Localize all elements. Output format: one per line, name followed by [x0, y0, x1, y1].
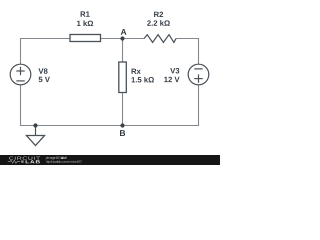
resistor R2	[144, 12, 176, 43]
wire right vertical upper	[198, 38, 200, 65]
wire bottom horizontal	[20, 125, 199, 127]
voltage source V3	[164, 64, 209, 85]
footer bar	[0, 155, 220, 165]
node A	[120, 29, 126, 41]
resistor R1	[70, 11, 101, 41]
footer text line 2	[46, 160, 82, 163]
resistor Rx	[119, 62, 154, 93]
wire R2 to top-right corner	[176, 38, 199, 40]
junction dot ground tap	[33, 123, 37, 127]
node B	[120, 123, 125, 136]
wire top-left horizontal	[20, 38, 71, 40]
wire left vertical lower	[20, 84, 22, 127]
wire R1 to node A	[101, 38, 123, 40]
footer CircuitLab logo	[8, 157, 40, 164]
wire Rx top lead	[122, 39, 124, 63]
wire node A to R2	[123, 38, 145, 40]
wire left vertical upper	[20, 38, 22, 65]
ground	[27, 126, 45, 146]
voltage source V8	[10, 64, 50, 85]
wire right vertical lower	[198, 84, 200, 127]
footer text line 1	[46, 156, 67, 159]
wire Rx bottom lead	[122, 92, 124, 126]
